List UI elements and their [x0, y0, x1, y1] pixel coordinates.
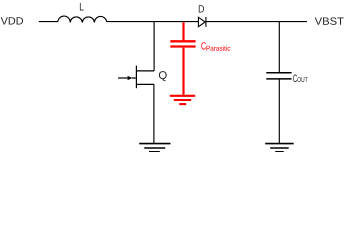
label Cparasitic [201, 42, 206, 49]
wire COUT to ground [278, 80, 280, 144]
wire Q source to ground [153, 84, 155, 143]
ground (COUT) [265, 144, 294, 152]
wire switch node to Q drain [153, 21, 155, 71]
ground (Q source) [139, 144, 170, 152]
node VBST [315, 17, 344, 25]
transistor Q [118, 66, 154, 89]
node VDD [1, 17, 23, 24]
ground (parasitic, red) [170, 96, 195, 104]
inductor L [58, 16, 107, 22]
diode D [198, 17, 206, 27]
wire inductor to diode [107, 21, 199, 23]
wire VBST node to COUT [278, 21, 280, 72]
label L [80, 3, 84, 11]
capacitor COUT [266, 73, 291, 79]
label D [199, 5, 204, 12]
wire VDD to inductor [39, 21, 58, 23]
label COUT [293, 75, 297, 83]
label Q [159, 71, 167, 81]
capacitor Cparasitic (red) [170, 22, 195, 95]
wire diode to VBST [206, 21, 307, 23]
